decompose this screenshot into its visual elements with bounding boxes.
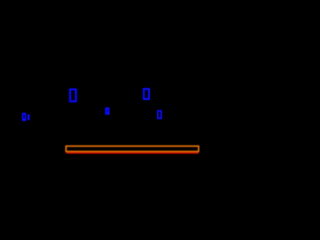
atom O (O3) bbox=[158, 111, 161, 119]
orange highlight rectangle bbox=[66, 146, 199, 151]
atom O (carbonyl O2) bbox=[144, 89, 149, 99]
atom N bbox=[105, 107, 109, 114]
atom O (ester O1) bbox=[70, 89, 76, 101]
red underline of highlight bar bbox=[66, 152, 198, 154]
atom Br bbox=[22, 113, 30, 121]
